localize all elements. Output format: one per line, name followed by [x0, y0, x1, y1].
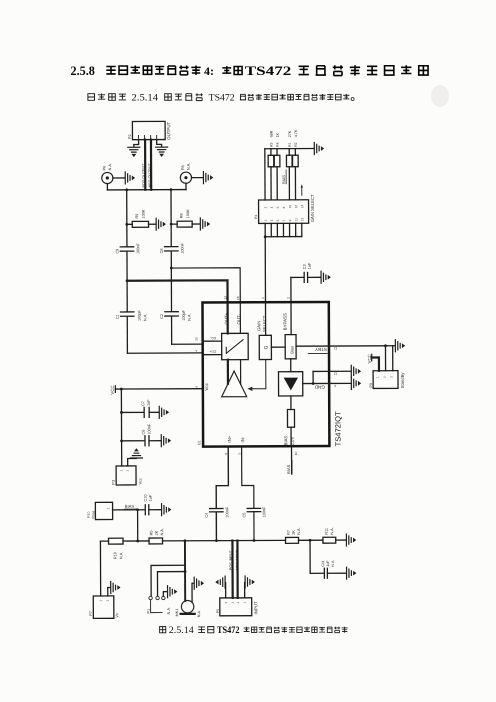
svg-text:2.0V: 2.0V: [290, 436, 295, 445]
svg-text:G: G: [263, 345, 269, 349]
svg-text:P2: P2: [128, 134, 132, 139]
wire to P1 pin1: [151, 565, 185, 596]
svg-text:14: 14: [300, 205, 304, 209]
capacitor C5 100nF: [242, 506, 266, 541]
capacitor C3 1uF: [303, 262, 312, 282]
resistor R7 2K N.A.: [285, 527, 301, 543]
ground at STBY rail: [395, 340, 404, 352]
svg-text:11: 11: [294, 218, 298, 222]
U1 GND net: [303, 371, 329, 389]
pin labels U1 bottom: [224, 452, 298, 456]
wire P8 to ground: [192, 177, 203, 179]
U1 IN- pin wire: [240, 436, 254, 508]
resistor R2 4.7K: [292, 129, 298, 200]
svg-text:TS472: TS472: [217, 625, 240, 635]
ground at P8: [203, 172, 212, 184]
svg-text:MK1: MK1: [175, 609, 179, 617]
ground gain rail: [314, 142, 323, 154]
svg-text:N.A.: N.A.: [119, 552, 123, 559]
svg-text:2: 2: [287, 297, 291, 299]
svg-text:CG+: CG+: [209, 349, 216, 353]
svg-text:P7: P7: [89, 611, 93, 616]
svg-text:C1: C1: [116, 314, 120, 319]
net stub BIAS at U1 pin10: [286, 446, 292, 474]
resistor R10 N.A.: [109, 538, 124, 559]
svg-text:N.A.: N.A.: [331, 560, 335, 567]
pin labels U1 left: [194, 337, 198, 388]
wire chain OUT-: [171, 190, 203, 345]
svg-text:Bias: Bias: [289, 346, 294, 354]
svg-text:1: 1: [264, 219, 268, 221]
resistor R8 100K: [170, 209, 200, 227]
svg-text:4: 4: [270, 206, 274, 208]
power VCC rail to U1: [110, 385, 203, 395]
svg-text:OUTPUT: OUTPUT: [166, 121, 171, 139]
capacitor C8 100nF: [160, 242, 185, 254]
svg-text:1uF: 1uF: [326, 560, 330, 567]
wire POS INPUT (thick): [229, 541, 233, 598]
ground at P7: [111, 581, 120, 593]
svg-text:STBY: STBY: [315, 347, 327, 352]
wire P6 to ground: [113, 177, 125, 179]
capacitor C11 1uF N.A.: [310, 540, 346, 578]
capacitor C4 100nF: [205, 506, 230, 541]
svg-text:N.A.: N.A.: [188, 313, 192, 320]
svg-text:SELECT: SELECT: [262, 315, 267, 332]
power VCC at P9: [367, 354, 379, 371]
svg-text:P4: P4: [254, 215, 258, 219]
U1 internal G box: [256, 302, 271, 359]
net label BIAS: [113, 504, 145, 510]
svg-text:P5: P5: [216, 609, 220, 613]
svg-text:C9: C9: [115, 249, 119, 254]
svg-text:2.5.14: 2.5.14: [169, 625, 195, 635]
resistor R9 100K: [125, 209, 155, 227]
svg-text:100K: 100K: [186, 209, 190, 218]
svg-text:N.A.: N.A.: [330, 527, 334, 534]
ground at P1: [168, 586, 177, 598]
svg-text:4:: 4:: [204, 64, 214, 78]
svg-text:BYPASS: BYPASS: [283, 313, 288, 330]
svg-text:2.5.14: 2.5.14: [132, 93, 159, 104]
net label BIAS (header): [281, 170, 286, 184]
svg-text:C7: C7: [141, 401, 145, 406]
pin labels U1 right: [334, 346, 338, 387]
svg-text:TS472IQT: TS472IQT: [333, 411, 342, 446]
wire P1 pin3 to ground: [163, 592, 167, 596]
svg-text:4: 4: [195, 386, 199, 388]
svg-text:2K: 2K: [155, 530, 159, 535]
wire output node horizontal: [107, 183, 186, 190]
svg-text:C11: C11: [321, 560, 325, 566]
junction OUT- tap: [170, 267, 173, 270]
svg-text:10: 10: [294, 452, 298, 456]
svg-text:C4: C4: [205, 513, 209, 518]
capacitor C1 100pF N.A.: [116, 310, 148, 322]
connector P10 Vbias: [87, 502, 113, 519]
svg-text:68R: 68R: [270, 130, 274, 137]
svg-text:IN+: IN+: [227, 435, 232, 442]
ground at MK1: [194, 577, 203, 589]
svg-text:Vcc: Vcc: [204, 382, 209, 390]
svg-text:7: 7: [282, 219, 286, 221]
svg-text:R11: R11: [325, 528, 329, 535]
svg-text:R3: R3: [269, 142, 273, 146]
svg-text:R4: R4: [276, 142, 280, 146]
svg-text:TS472: TS472: [209, 93, 235, 104]
capacitor C2 100pF N.A.: [160, 309, 192, 321]
svg-text:N.A.: N.A.: [187, 163, 191, 170]
svg-text:27K: 27K: [288, 130, 292, 137]
svg-text:R7: R7: [287, 530, 291, 535]
svg-text:R1: R1: [288, 142, 292, 146]
junction dots output node: [125, 188, 172, 191]
svg-text:P3: P3: [112, 480, 116, 485]
U1 internal bias resistor: [283, 396, 295, 446]
wire input bias bus: [100, 539, 346, 543]
svg-text:2: 2: [264, 206, 268, 208]
svg-text:GND: GND: [314, 384, 325, 389]
wire STBY to P9 and ground: [329, 344, 395, 371]
wire gain resistor top rail: [265, 148, 314, 150]
connector P6 (N.A.): [102, 163, 113, 184]
svg-text:INPUT: INPUT: [253, 601, 258, 615]
svg-text:100nF: 100nF: [147, 423, 151, 434]
ground at U1 pin6: [329, 377, 360, 389]
svg-text:2K: 2K: [292, 530, 296, 535]
U1 IN+ pin wire: [216, 435, 232, 508]
wire bypass node: [291, 277, 304, 302]
svg-text:3: 3: [270, 219, 274, 221]
svg-text:100nF: 100nF: [136, 243, 140, 254]
resistor R5 2K N.A.: [149, 528, 164, 544]
wire P3 pin2 to ground: [128, 458, 137, 465]
resistor R4 1K: [274, 132, 280, 200]
U1 STBY net: [296, 346, 329, 354]
wire P5 pin1 to ground: [244, 583, 246, 598]
connector P1 N.A. 3-pin: [147, 596, 171, 614]
ground P2 pin4: [156, 147, 168, 156]
svg-text:8: 8: [282, 206, 286, 208]
wire VCC decoupling drop: [120, 389, 122, 466]
U1 internal Bias box: [282, 302, 296, 359]
svg-text:IN-: IN-: [240, 436, 245, 442]
wire bus to P7: [99, 541, 101, 596]
svg-text:BIAS: BIAS: [286, 464, 291, 473]
svg-text:14: 14: [194, 350, 198, 354]
capacitor C10 1uF: [144, 494, 161, 515]
svg-text:POS INPUT: POS INPUT: [229, 549, 233, 570]
svg-text:P8: P8: [181, 165, 185, 170]
svg-text:CG-: CG-: [210, 336, 216, 340]
svg-text:16: 16: [236, 296, 240, 300]
svg-text:OUT-: OUT-: [236, 314, 241, 325]
svg-text:C10: C10: [144, 494, 148, 501]
wire gain select to U1 pin9: [264, 237, 266, 302]
capacitor C9 100nF: [115, 243, 140, 255]
wire P5 pin4 to ground: [225, 583, 227, 598]
ground after R11: [346, 534, 355, 546]
ground at C10: [162, 504, 171, 516]
intro paragraph: [88, 93, 354, 104]
svg-text:R9: R9: [135, 214, 139, 219]
ground at P3: [130, 449, 142, 458]
svg-text:C8: C8: [160, 249, 164, 254]
wire P2 pin4 to ground: [157, 140, 162, 147]
svg-text:2.5.8: 2.5.8: [71, 64, 95, 78]
svg-text:9: 9: [288, 219, 292, 221]
svg-text:BIAS: BIAS: [281, 175, 286, 184]
ground at C11: [347, 567, 356, 579]
U1 internal reference box: [278, 359, 302, 396]
svg-text:GAIN: GAIN: [256, 321, 261, 331]
svg-text:C3: C3: [303, 264, 307, 269]
connector P2: [128, 121, 171, 140]
connector P7: [89, 596, 119, 619]
microphone MK1 N.A.: [175, 600, 201, 617]
op-amp U1 TS472IQT body: [197, 302, 343, 447]
ground at C6: [161, 435, 170, 447]
wire OUT+ to U1 (thick): [127, 280, 228, 334]
ground at P6: [125, 172, 134, 184]
wire MK1 to ground: [192, 583, 194, 602]
svg-text:9: 9: [261, 297, 265, 299]
scan artifact: [431, 85, 449, 107]
connector P4 GAIN SELECT header: [254, 184, 315, 223]
svg-text:N.A.: N.A.: [167, 607, 171, 614]
svg-text:10: 10: [288, 205, 292, 209]
svg-text:TS472: TS472: [245, 64, 291, 78]
svg-text:1K: 1K: [276, 132, 280, 137]
junction OUT+ tap: [126, 279, 129, 282]
capacitor C6 100nF: [120, 423, 161, 446]
svg-text:100pF: 100pF: [138, 310, 142, 321]
svg-text:U1: U1: [197, 440, 201, 445]
ground at R8: [200, 218, 209, 230]
ground right of P5: [245, 576, 254, 588]
svg-text:VCC: VCC: [367, 354, 372, 363]
wire bus to MK1 (thick): [184, 541, 186, 601]
svg-text:N.A.: N.A.: [143, 314, 147, 321]
pin labels U1 top: [223, 296, 290, 301]
svg-text:12: 12: [294, 205, 298, 209]
capacitor C7 1uF: [120, 399, 159, 418]
svg-text:P9: P9: [369, 383, 373, 387]
wire C3 to ground: [308, 276, 321, 278]
svg-text:NEG INPUT: NEG INPUT: [235, 549, 239, 570]
svg-text:Vbias: Vbias: [91, 510, 95, 519]
wire P7 pin2 to ground: [108, 588, 111, 596]
svg-text:OUT+: OUT+: [224, 312, 229, 324]
svg-text:StandBy: StandBy: [400, 372, 405, 389]
wire header bottom bus: [264, 223, 302, 238]
wire chain OUT+: [127, 190, 203, 354]
wire NEG OUTPUT (thick): [148, 140, 152, 190]
svg-text:100nF: 100nF: [262, 506, 266, 517]
ground at U1 pin12: [329, 365, 360, 377]
svg-text:BIAS: BIAS: [125, 504, 135, 509]
svg-text:R5: R5: [149, 531, 153, 536]
svg-text:R10: R10: [113, 552, 117, 559]
ground at R9: [156, 218, 165, 230]
svg-text:P10: P10: [87, 512, 91, 518]
wire header col1: [264, 149, 266, 200]
svg-text:GAIN SELECT: GAIN SELECT: [310, 194, 315, 222]
wire G box to Bias box: [271, 346, 285, 348]
wire POS OUTPUT (thick): [142, 140, 146, 190]
ground P2 pin1: [128, 147, 140, 156]
svg-text:NEG OUTPUT: NEG OUTPUT: [148, 163, 152, 188]
wire G box to amp (gain arrow): [247, 360, 266, 391]
wire NEG INPUT (thick): [235, 541, 239, 598]
ground at C3: [321, 271, 330, 283]
svg-text:N.A.: N.A.: [160, 528, 164, 535]
connector P5 INPUT: [216, 598, 259, 616]
wire P2 pin1 to ground: [134, 140, 139, 147]
svg-text:1uF: 1uF: [147, 399, 151, 406]
svg-text:6: 6: [276, 206, 280, 208]
svg-text:11: 11: [334, 346, 338, 350]
resistor R3 68R: [268, 130, 274, 200]
svg-text:P1: P1: [147, 609, 151, 614]
ground at C7: [159, 406, 168, 418]
wire to P1 pin2: [157, 570, 186, 596]
svg-text:12: 12: [334, 372, 338, 376]
wire OUT- to U1: [171, 268, 240, 334]
resistor R11 N.A.: [323, 527, 336, 543]
svg-text:5: 5: [237, 453, 241, 455]
connector P9 StandBy: [369, 371, 405, 389]
svg-text:13: 13: [223, 296, 227, 300]
svg-text:15: 15: [194, 337, 198, 341]
svg-text:C6: C6: [142, 430, 146, 435]
svg-text:VCC: VCC: [110, 385, 115, 394]
svg-text:N.A.: N.A.: [108, 163, 112, 170]
svg-text:1uF: 1uF: [308, 262, 312, 269]
svg-text:BIAS: BIAS: [283, 436, 288, 446]
svg-text:4.7K: 4.7K: [294, 129, 298, 137]
svg-text:R2: R2: [294, 142, 298, 146]
svg-text:C2: C2: [160, 314, 164, 319]
svg-text:13: 13: [300, 218, 304, 222]
svg-text:POS OUTPUT: POS OUTPUT: [142, 163, 146, 188]
svg-text:P6: P6: [102, 166, 106, 171]
U1 pins CG- CG+: [203, 336, 222, 355]
svg-text:6: 6: [334, 384, 336, 388]
connector P3 Vcc: [111, 466, 142, 485]
ground left of P5: [216, 576, 225, 588]
svg-text:100nF: 100nF: [225, 506, 229, 517]
U1 internal switch box: [222, 312, 249, 359]
svg-text:C5: C5: [242, 513, 246, 518]
svg-text:R8: R8: [180, 213, 184, 218]
U1 internal amplifier: [204, 360, 247, 397]
wire BIAS to bus: [136, 508, 139, 541]
svg-text:100K: 100K: [142, 209, 146, 218]
figure caption: [160, 625, 348, 635]
svg-text:N.A.: N.A.: [297, 527, 301, 534]
connector P8 (N.A.): [180, 163, 191, 184]
svg-text:100nF: 100nF: [181, 242, 185, 253]
svg-text:100pF: 100pF: [182, 309, 186, 320]
resistor R1 27K: [286, 130, 292, 200]
section heading: [71, 64, 429, 78]
svg-text:Vx: Vx: [115, 613, 119, 618]
svg-text:5: 5: [276, 219, 280, 221]
svg-text:Vcc: Vcc: [139, 478, 143, 484]
svg-text:1uF: 1uF: [149, 494, 153, 501]
svg-text:N.A.: N.A.: [197, 610, 201, 617]
